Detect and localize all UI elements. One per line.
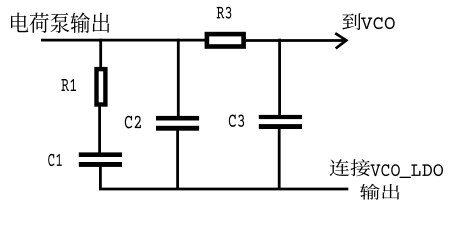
capacitor C2 top plate bbox=[156, 116, 199, 121]
wire bottom rail bbox=[99, 188, 348, 191]
wire top to C2 bbox=[177, 39, 180, 117]
capacitor C1 top plate bbox=[79, 152, 122, 157]
wire top horizontal from input to R3 bbox=[41, 39, 206, 42]
capacitor C2 bottom plate bbox=[156, 126, 199, 131]
wire C1 to bottom rail bbox=[99, 167, 102, 190]
label 电荷泵输出 (charge pump output) bbox=[11, 12, 109, 33]
resistor R3 bbox=[207, 34, 244, 46]
label R3 bbox=[217, 7, 232, 19]
wire R1 to C1 bbox=[98, 107, 101, 153]
capacitor C3 bottom plate bbox=[259, 124, 302, 129]
capacitor C3 top plate bbox=[259, 115, 302, 119]
label C3 bbox=[229, 115, 244, 127]
wire C3 to bottom rail bbox=[278, 129, 281, 189]
arrow to VCO bbox=[335, 33, 346, 48]
label C1 bbox=[48, 154, 62, 166]
wire R3 to arrow bbox=[246, 39, 344, 42]
label 连接VCO_LDO (connect VCO_LDO) line 1 bbox=[330, 159, 370, 176]
label 输出 (output) line 2 bbox=[360, 184, 399, 200]
wire C2 to bottom rail bbox=[176, 131, 179, 190]
wire top to C3 bbox=[278, 39, 281, 116]
capacitor C1 bottom plate bbox=[79, 162, 122, 167]
label R1 bbox=[61, 79, 76, 91]
label 到VCO (to VCO) bbox=[342, 13, 360, 30]
node junction R1 branch bbox=[99, 39, 102, 68]
resistor R1 bbox=[97, 69, 106, 104]
label C2 bbox=[125, 116, 141, 129]
